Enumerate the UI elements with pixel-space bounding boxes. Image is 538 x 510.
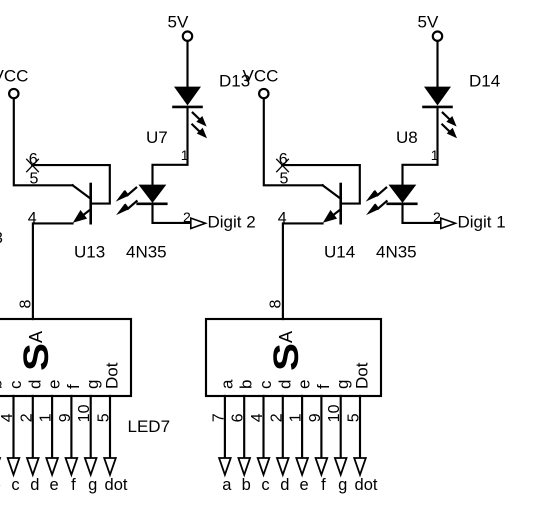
svg-text:b: b [237,380,256,389]
phototransistor of optocoupler U13: collector diagonal [73,185,91,198]
svg-text:1: 1 [38,413,55,422]
svg-text:10: 10 [76,404,93,422]
svg-text:U8: U8 [396,128,418,147]
svg-text:2: 2 [268,413,285,422]
svg-text:d: d [280,476,289,494]
seven-segment display module box [0,319,131,396]
svg-text:g: g [88,476,97,494]
display pin wire e [301,396,303,458]
display pin wire dot [109,396,111,458]
svg-text:g: g [83,380,102,389]
connector arrow dot [104,458,116,475]
LED D14 emission arrow 2 [442,125,450,133]
optocoupler light arrow 2 [125,201,136,208]
svg-text:f: f [314,384,333,389]
svg-text:b: b [0,476,1,494]
svg-text:4: 4 [28,210,37,227]
display pin wire d [32,396,34,458]
optocoupler light arrow 1 [125,188,136,195]
svg-text:5V: 5V [168,13,189,32]
svg-text:4: 4 [249,413,266,422]
svg-text:Dot: Dot [353,362,372,389]
svg-text:b: b [0,380,6,389]
svg-text:4N35: 4N35 [126,243,167,262]
svg-text:5: 5 [280,171,289,188]
connector arrow g [335,458,347,475]
wire VCC to pin 5 (collector) [14,98,73,185]
svg-text:D14: D14 [469,71,500,90]
phototransistor base bar [339,184,342,223]
svg-text:f: f [321,476,326,494]
connector arrow e [46,458,58,475]
display pin wire f [70,396,72,458]
optocoupler light arrow 2 [375,201,386,208]
LED D13 [174,87,201,106]
connector arrow e [296,458,308,475]
svg-text:2: 2 [18,413,35,422]
svg-text:Dot: Dot [103,362,122,389]
wire 5V to LED D14 anode [436,41,438,87]
svg-text:a: a [217,379,236,389]
svg-text:5V: 5V [418,13,439,32]
svg-text:d: d [30,476,39,494]
display pin wire b [243,396,245,458]
display pin wire g [340,396,342,458]
no-connect X on pin 6 [27,159,39,171]
svg-text:S: S [267,343,306,371]
svg-text:A: A [276,331,296,343]
svg-text:e: e [295,380,314,389]
connector arrow d [277,458,289,475]
svg-text:A: A [26,331,46,343]
svg-text:g: g [338,476,347,494]
svg-text:Digit 1: Digit 1 [458,213,506,232]
svg-text:e: e [50,476,59,494]
svg-text:6: 6 [279,151,288,168]
svg-text:d: d [25,380,44,389]
connector arrow d [27,458,39,475]
connector arrow dot [354,458,366,475]
svg-text:U13: U13 [74,243,105,262]
svg-text:a: a [222,476,232,494]
svg-text:8: 8 [268,300,285,309]
optocoupler internal LED [139,185,167,203]
svg-text:f: f [71,476,76,494]
display pin wire d [282,396,284,458]
svg-text:c: c [261,476,269,494]
svg-text:g: g [333,380,352,389]
base lead wire to pin 6 [282,165,360,204]
svg-text:8: 8 [18,300,35,309]
svg-text:LED7: LED7 [128,417,171,436]
connector arrow c [8,458,20,475]
svg-text:9: 9 [307,413,324,422]
svg-text:5: 5 [30,171,39,188]
svg-text:5: 5 [96,413,113,422]
connector arrow f [66,458,78,475]
display pin wire e [51,396,53,458]
pin 4 (emitter) wire down to display pin 8 [283,223,323,319]
svg-text:2: 2 [433,209,441,225]
display pin wire g [90,396,92,458]
optocoupler internal LED [389,185,417,203]
wire optocoupler pin 2 to output port [403,204,441,223]
connector arrow f [316,458,328,475]
svg-text:e: e [45,380,64,389]
svg-text:4: 4 [0,413,16,422]
svg-text:7: 7 [210,413,227,422]
svg-text:Digit 2: Digit 2 [208,213,256,232]
svg-text:10: 10 [326,404,343,422]
output port triangle Digit 1 [441,218,456,228]
svg-text:U7: U7 [146,128,168,147]
base lead wire to pin 6 [32,165,110,204]
svg-text:4: 4 [278,210,287,227]
LED D14 [424,87,451,106]
svg-text:1: 1 [181,147,189,163]
display pin wire a [224,396,226,458]
wire D13 cathode to optocoupler pin 1 [153,107,188,185]
wire 5V to LED D13 anode [186,41,188,87]
optocoupler light arrow 1 [375,188,386,195]
svg-text:c: c [11,476,19,494]
svg-text:dot: dot [355,476,378,494]
LED D14 emission arrow 1 [443,113,451,121]
output port triangle Digit 2 [191,218,206,228]
phototransistor base bar [89,184,92,223]
svg-text:c: c [256,380,275,389]
svg-text:5: 5 [346,413,363,422]
phototransistor emitter with arrow [330,209,341,218]
no-connect X on pin 6 [277,159,289,171]
LED D13 emission arrow 1 [193,113,201,121]
svg-text:2: 2 [183,209,191,225]
svg-text:9: 9 [57,413,74,422]
display pin wire dot [359,396,361,458]
svg-text:dot: dot [105,476,128,494]
svg-text:VCC: VCC [243,67,279,86]
display pin wire c [12,396,14,458]
phototransistor of optocoupler U14: collector diagonal [323,185,341,198]
wire D14 cathode to optocoupler pin 1 [403,107,438,185]
svg-text:S: S [17,343,56,371]
svg-text:U14: U14 [324,243,355,262]
connector arrow b [238,458,250,475]
wire VCC to pin 5 (collector) [264,98,323,185]
svg-text:1: 1 [431,147,439,163]
connector arrow g [85,458,97,475]
svg-text:1: 1 [288,413,305,422]
svg-text:VCC: VCC [0,67,28,86]
svg-text:b: b [242,476,251,494]
svg-text:f: f [64,384,83,389]
phototransistor emitter with arrow [80,209,91,218]
svg-text:e: e [300,476,309,494]
pin 4 (emitter) wire down to display pin 8 [33,223,73,319]
display pin wire c [262,396,264,458]
svg-text:d: d [275,380,294,389]
connector arrow c [258,458,270,475]
svg-text:4N35: 4N35 [376,243,417,262]
svg-text:6: 6 [29,151,38,168]
svg-text:c: c [6,380,25,389]
connector arrow a [219,458,231,475]
display pin wire f [320,396,322,458]
seven-segment display module box [206,319,381,396]
svg-text:3: 3 [0,230,3,247]
svg-text:6: 6 [230,413,247,422]
LED D13 emission arrow 2 [192,125,200,133]
wire optocoupler pin 2 to output port [153,204,191,223]
